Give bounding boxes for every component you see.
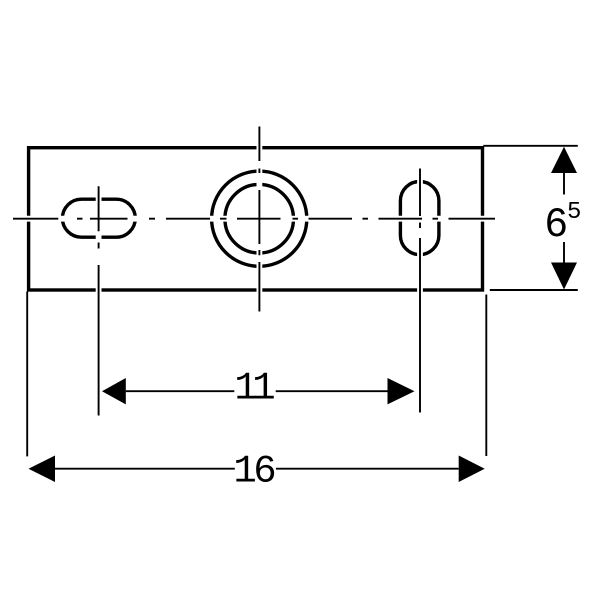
centre hole outer circle bbox=[212, 171, 307, 266]
left slot centreline bbox=[98, 186, 100, 415]
arrowhead 16 left bbox=[29, 456, 56, 483]
left slot bbox=[62, 199, 135, 237]
vertical centreline of centre hole bbox=[258, 127, 260, 312]
arrowhead 11 right bbox=[388, 378, 415, 404]
extension line left for 16 bbox=[26, 292, 28, 457]
arrowhead 16 right bbox=[459, 456, 485, 483]
extension line right for 16 bbox=[485, 295, 487, 457]
horizontal centreline bbox=[13, 218, 495, 220]
centreline halo horizontal bbox=[13, 216, 495, 222]
arrowhead 6.5 down bbox=[551, 263, 577, 290]
right slot bbox=[400, 182, 439, 255]
centreline halo left slot bbox=[96, 186, 102, 415]
svg-text:11: 11 bbox=[234, 367, 274, 411]
dimension line 16 bbox=[55, 468, 459, 470]
centreline halo vertical centre hole bbox=[256, 127, 262, 312]
centreline halo right slot bbox=[417, 169, 423, 413]
extension line top right bbox=[483, 145, 578, 147]
right slot centreline bbox=[419, 169, 421, 413]
svg-text:6: 6 bbox=[544, 201, 568, 249]
centre hole inner circle bbox=[225, 184, 294, 253]
dimension line 11 bbox=[126, 390, 388, 392]
svg-text:16: 16 bbox=[233, 449, 274, 493]
arrowhead 6.5 up bbox=[551, 147, 577, 173]
arrowhead 11 left bbox=[102, 378, 126, 404]
dimension line 6.5 vertical shaft bbox=[563, 173, 565, 263]
svg-text:5: 5 bbox=[567, 199, 581, 226]
extension line bottom right bbox=[490, 289, 578, 291]
plate outline bbox=[29, 148, 483, 290]
